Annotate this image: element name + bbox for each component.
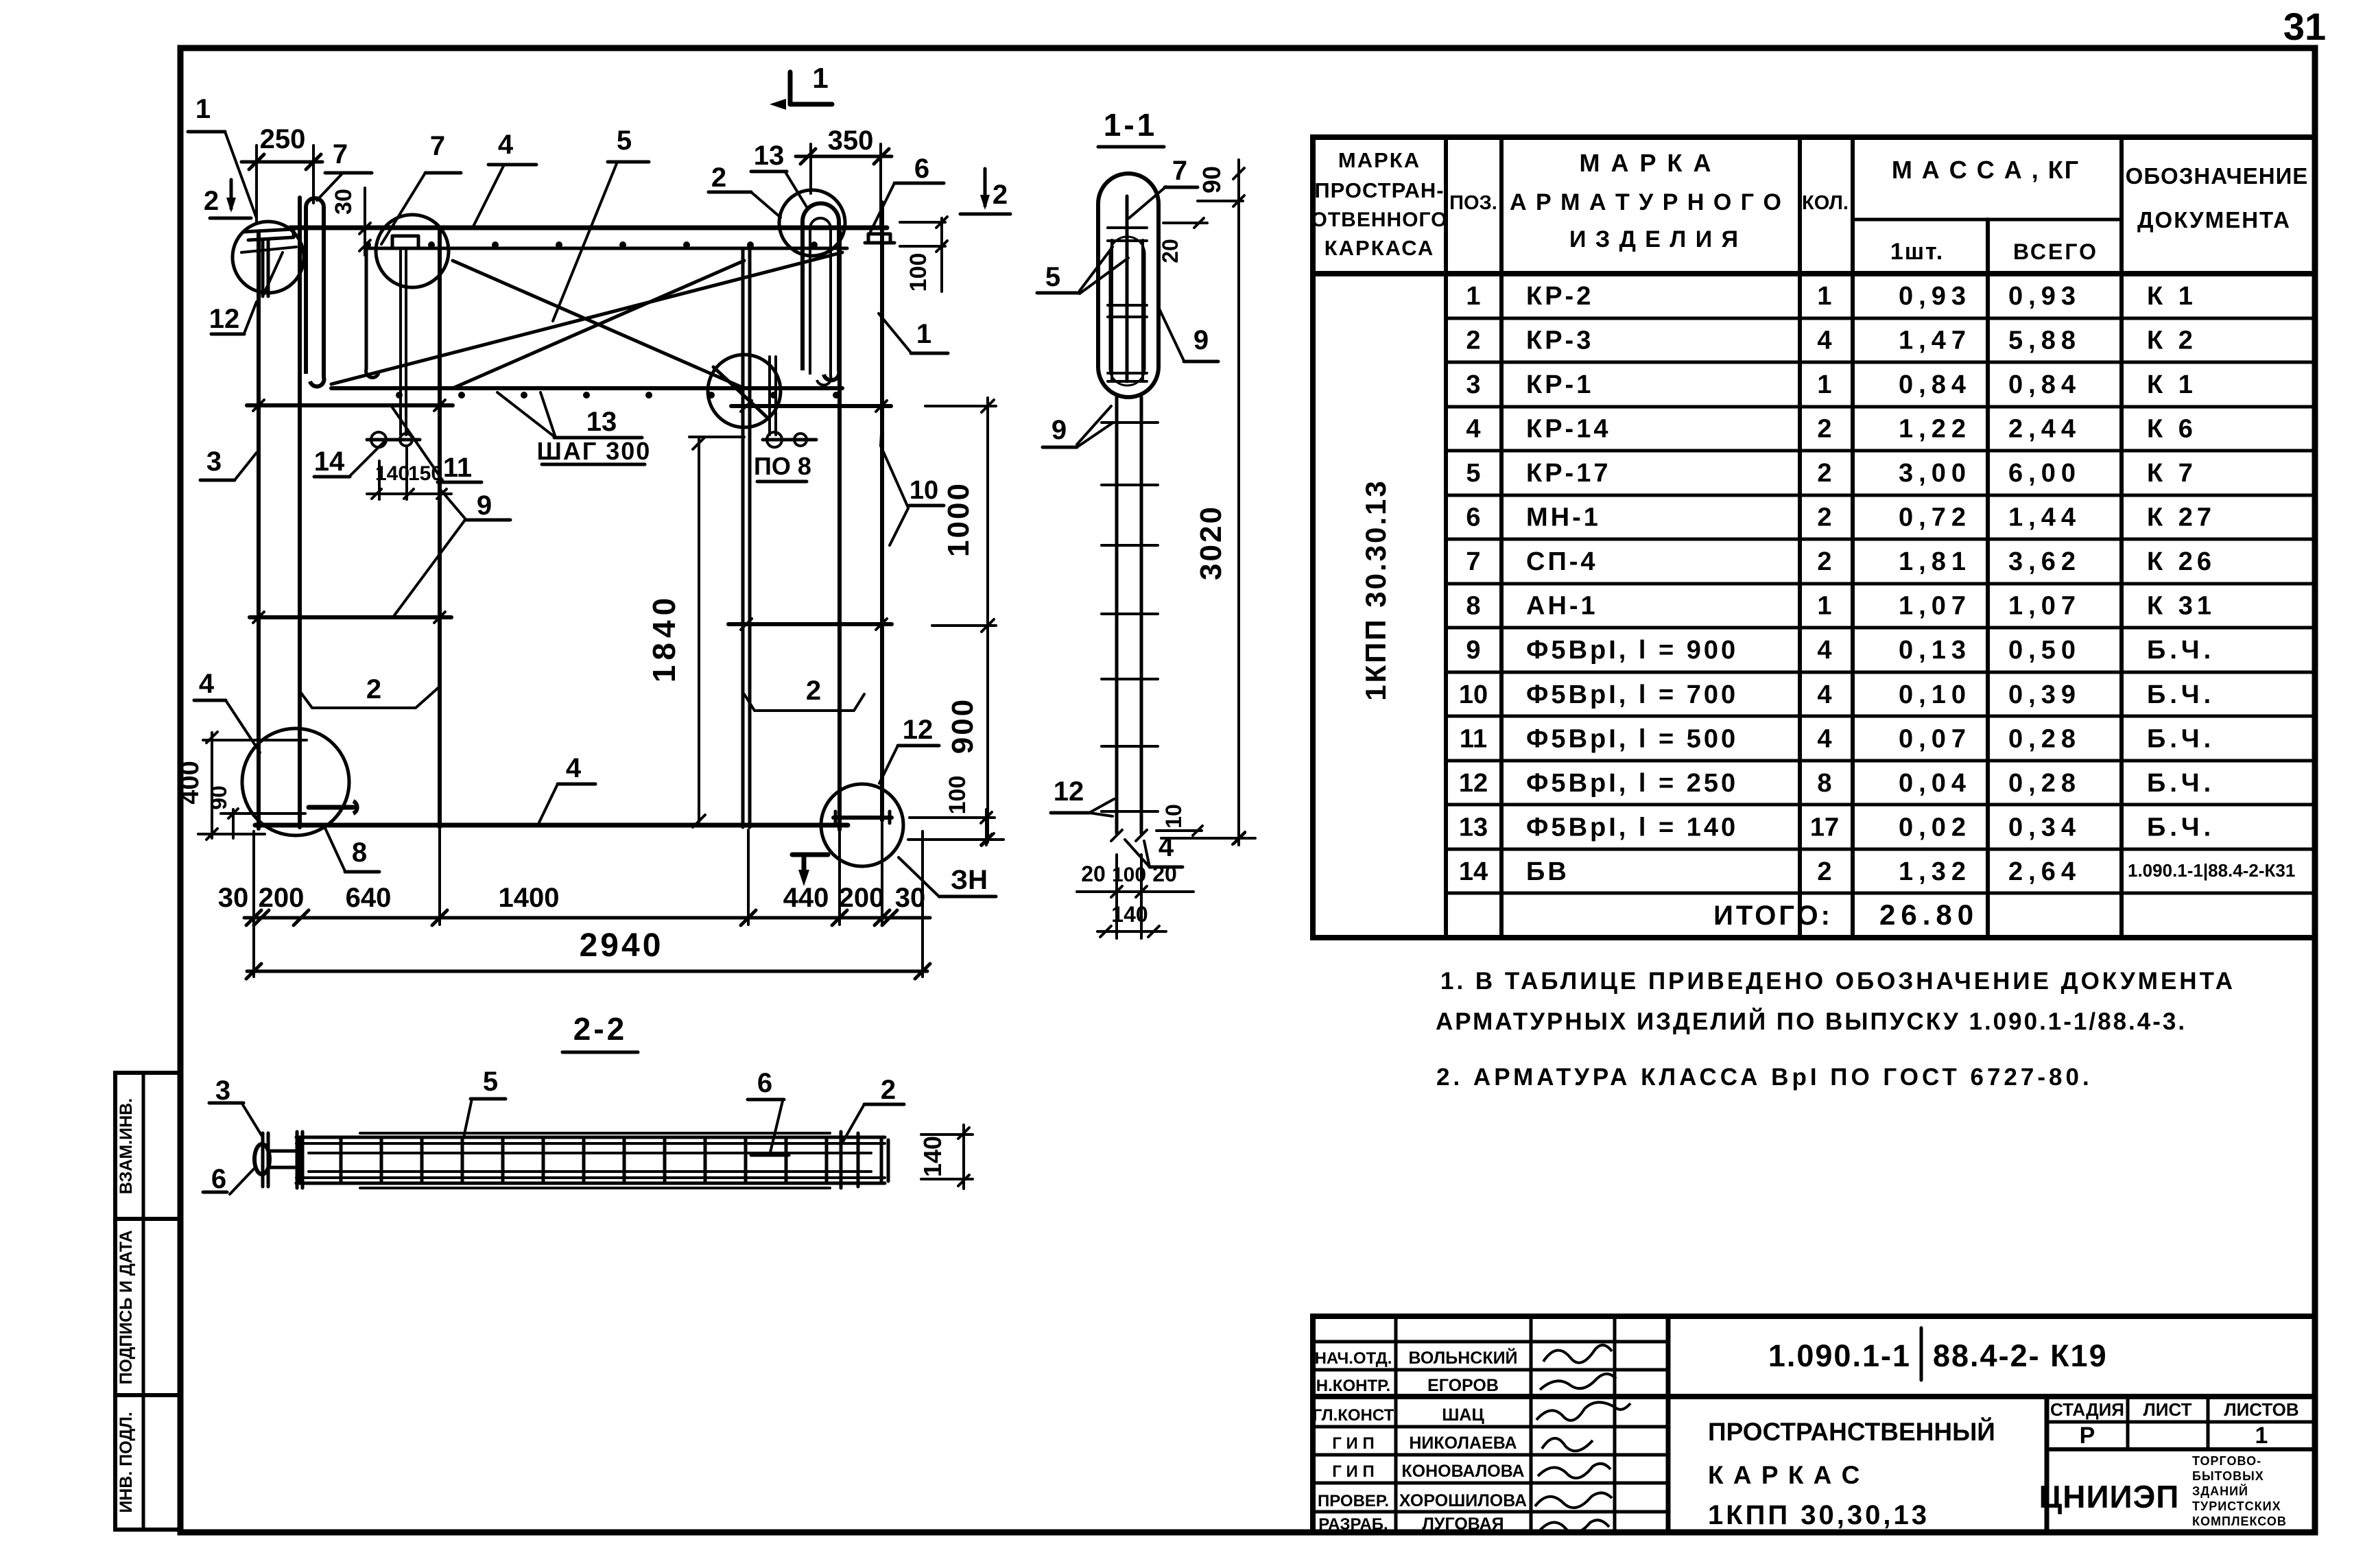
svg-text:ОТВЕННОГО: ОТВЕННОГО xyxy=(1311,209,1448,231)
svg-text:0,04: 0,04 xyxy=(1899,769,1971,798)
svg-text:ЗДАНИЙ: ЗДАНИЙ xyxy=(2192,1484,2248,1498)
plan diagonal brace 3 xyxy=(331,252,842,384)
plan cross wire rung row 1 left xyxy=(247,403,453,407)
svg-text:2: 2 xyxy=(204,186,219,216)
plan vertical member mid-left xyxy=(438,228,442,827)
dimension 1840 vertical xyxy=(698,439,700,825)
svg-text:КОЛ.: КОЛ. xyxy=(1802,192,1849,214)
svg-text:6: 6 xyxy=(211,1164,226,1194)
svg-text:20: 20 xyxy=(1081,862,1106,886)
svg-text:150: 150 xyxy=(408,462,442,485)
svg-text:К 26: К 26 xyxy=(2147,547,2215,576)
svg-text:0,84: 0,84 xyxy=(1899,370,1971,399)
svg-text:ШАГ 300: ШАГ 300 xyxy=(537,437,652,465)
svg-text:МАРКА: МАРКА xyxy=(1338,148,1421,172)
svg-text:2: 2 xyxy=(1817,503,1831,532)
plan left vertical member pair xyxy=(298,198,302,827)
svg-text:Г И П: Г И П xyxy=(1332,1434,1374,1453)
svg-text:3: 3 xyxy=(1466,370,1480,399)
table column line 1 xyxy=(1444,137,1448,938)
svg-text:ОБОЗНАЧЕНИЕ: ОБОЗНАЧЕНИЕ xyxy=(2126,163,2309,189)
svg-text:640: 640 xyxy=(346,883,392,913)
svg-text:1КПП 30.30.13: 1КПП 30.30.13 xyxy=(1359,479,1392,701)
svg-text:ВЗАМ.ИНВ.: ВЗАМ.ИНВ. xyxy=(117,1098,136,1194)
svg-text:26.80: 26.80 xyxy=(1879,899,1979,931)
svg-text:900: 900 xyxy=(946,698,979,754)
svg-text:ЛУГОВАЯ: ЛУГОВАЯ xyxy=(1422,1514,1504,1534)
svg-text:2-2: 2-2 xyxy=(573,1011,627,1047)
svg-text:0,13: 0,13 xyxy=(1899,636,1971,665)
svg-text:1КПП 30,30,13: 1КПП 30,30,13 xyxy=(1708,1500,1929,1530)
svg-text:9: 9 xyxy=(1193,325,1209,355)
svg-text:ЗН: ЗН xyxy=(951,865,988,895)
svg-text:1: 1 xyxy=(1466,282,1480,311)
plan diagonal brace 2 xyxy=(453,261,744,388)
svg-text:ВСЕГО: ВСЕГО xyxy=(2013,239,2098,264)
svg-text:350: 350 xyxy=(828,126,874,156)
svg-text:БВ: БВ xyxy=(1526,857,1569,886)
svg-text:1,81: 1,81 xyxy=(1899,547,1971,576)
svg-text:10: 10 xyxy=(1161,804,1186,829)
svg-text:6: 6 xyxy=(757,1068,772,1098)
svg-text:2: 2 xyxy=(881,1075,896,1105)
item 12 end bar in circle xyxy=(833,816,892,820)
left stamp strip divider 2 xyxy=(115,1393,180,1397)
plan bottom left hook item 8 xyxy=(309,805,353,810)
svg-text:11: 11 xyxy=(443,453,472,483)
svg-text:1.090.1-1: 1.090.1-1 xyxy=(1768,1338,1911,1373)
plan bottom beam chord xyxy=(331,386,842,390)
svg-text:ЦНИИЭП: ЦНИИЭП xyxy=(2039,1479,2180,1514)
table massa sub-header line xyxy=(1853,218,2122,222)
svg-text:К 1: К 1 xyxy=(2147,282,2197,311)
svg-text:12: 12 xyxy=(209,304,240,334)
svg-text:100: 100 xyxy=(1112,864,1146,886)
svg-text:10: 10 xyxy=(910,476,938,505)
svg-text:КР-14: КР-14 xyxy=(1526,415,1611,444)
plan bottom chord item 4 xyxy=(255,823,848,828)
signature squiggles xyxy=(1543,1345,1612,1363)
table row lines xyxy=(1446,317,2315,320)
svg-text:3,62: 3,62 xyxy=(2008,547,2081,576)
svg-text:200: 200 xyxy=(259,883,305,913)
detail circle top-left inner plate xyxy=(244,229,294,240)
svg-text:6: 6 xyxy=(914,154,929,184)
section 1-1 inner capsule xyxy=(1110,237,1145,385)
plan pin B hanger wires xyxy=(399,248,402,435)
svg-text:ВОЛЬНСКИЙ: ВОЛЬНСКИЙ xyxy=(1408,1347,1517,1368)
svg-text:И З Д Е Л И Я: И З Д Е Л И Я xyxy=(1569,226,1739,252)
svg-text:ПРОСТРАН-: ПРОСТРАН- xyxy=(1314,178,1444,202)
svg-text:0,84: 0,84 xyxy=(2008,370,2081,399)
svg-text:20: 20 xyxy=(1152,862,1177,886)
svg-text:5: 5 xyxy=(1045,262,1060,292)
bottom dimension extension lines xyxy=(252,831,255,977)
bottom dimension row 30 200 640 1400 440 200 30 xyxy=(244,916,930,920)
detail circle top-left xyxy=(233,222,304,293)
svg-text:30: 30 xyxy=(895,883,926,913)
plan vertical member mid-right pair xyxy=(741,248,745,827)
svg-text:2,44: 2,44 xyxy=(2008,415,2081,444)
svg-text:ИТОГО:: ИТОГО: xyxy=(1713,901,1833,931)
svg-text:2940: 2940 xyxy=(580,927,664,964)
v mark wires 13 xyxy=(497,392,556,438)
svg-text:200: 200 xyxy=(839,883,885,913)
svg-text:1: 1 xyxy=(1817,370,1831,399)
svg-text:ПРОСТРАНСТВЕННЫЙ: ПРОСТРАНСТВЕННЫЙ xyxy=(1708,1417,1995,1446)
plan vertical member right 2 xyxy=(880,202,884,820)
svg-text:31: 31 xyxy=(2283,5,2326,48)
section 1-1 inner wires xyxy=(1110,240,1113,381)
svg-text:4: 4 xyxy=(1817,326,1831,355)
svg-text:0,28: 0,28 xyxy=(2008,769,2081,798)
svg-text:9: 9 xyxy=(1052,415,1067,445)
section 2-2 rungs xyxy=(299,1139,302,1182)
plan hairpin pin B plate xyxy=(392,236,418,248)
detail circle mid-right xyxy=(708,355,781,427)
svg-text:Ф5ВрI, l = 500: Ф5ВрI, l = 500 xyxy=(1526,724,1738,753)
section 1-1 stem rungs xyxy=(1102,421,1158,424)
svg-text:Б.Ч.: Б.Ч. xyxy=(2147,724,2215,753)
svg-text:Н.КОНТР.: Н.КОНТР. xyxy=(1316,1377,1390,1395)
svg-text:3,00: 3,00 xyxy=(1899,459,1971,488)
svg-text:АРМАТУРНЫХ ИЗДЕЛИЙ ПО ВЫПУСК: АРМАТУРНЫХ ИЗДЕЛИЙ ПО ВЫПУСКУ 1.090.1-1/… xyxy=(1436,1008,2187,1035)
svg-text:4: 4 xyxy=(1466,415,1480,444)
svg-text:ЛИСТОВ: ЛИСТОВ xyxy=(2224,1399,2298,1420)
svg-text:КР-3: КР-3 xyxy=(1526,326,1593,355)
svg-text:Ф5ВрI, l = 250: Ф5ВрI, l = 250 xyxy=(1526,769,1738,798)
svg-text:ЕГОРОВ: ЕГОРОВ xyxy=(1427,1376,1499,1395)
dimension 2940 xyxy=(247,970,927,973)
detail circle bottom-right xyxy=(821,784,903,866)
svg-text:СТАДИЯ: СТАДИЯ xyxy=(2050,1399,2124,1420)
svg-text:7: 7 xyxy=(430,131,445,161)
dimension 1000 900 right xyxy=(986,398,989,842)
title block column line role xyxy=(1394,1316,1398,1532)
svg-text:3: 3 xyxy=(215,1076,230,1106)
title block column line sign xyxy=(1613,1316,1617,1532)
svg-text:8: 8 xyxy=(1466,592,1480,621)
plan cross wire rung row 2 left xyxy=(250,615,451,619)
svg-text:К 27: К 27 xyxy=(2147,503,2215,532)
svg-text:1,32: 1,32 xyxy=(1899,857,1971,886)
svg-text:МН-1: МН-1 xyxy=(1526,503,1601,532)
svg-text:7: 7 xyxy=(333,139,348,169)
detail circle mid-left xyxy=(376,215,449,287)
title block outer frame xyxy=(1313,1316,2315,1532)
section 2-2 bottom wire xyxy=(360,1187,830,1189)
title block stadia list listov header lines xyxy=(2045,1397,2050,1532)
title block column line mid xyxy=(1666,1316,1671,1532)
svg-text:1: 1 xyxy=(812,62,828,94)
svg-text:2: 2 xyxy=(1817,857,1831,886)
svg-text:2: 2 xyxy=(806,676,821,706)
svg-text:Ф5ВрI, l = 700: Ф5ВрI, l = 700 xyxy=(1526,680,1738,709)
svg-text:2,64: 2,64 xyxy=(2008,857,2081,886)
svg-text:2. АРМАТУРА КЛАССА ВрI ПО Г: 2. АРМАТУРА КЛАССА ВрI ПО ГОСТ 6727-80. xyxy=(1436,1064,2093,1091)
left stamp strip inner divider xyxy=(142,1073,145,1530)
svg-text:1шт.: 1шт. xyxy=(1890,239,1944,265)
svg-text:ЛИСТ: ЛИСТ xyxy=(2143,1399,2192,1420)
svg-text:250: 250 xyxy=(260,124,306,154)
svg-text:1: 1 xyxy=(916,319,931,349)
svg-text:КОМПЛЕКСОВ: КОМПЛЕКСОВ xyxy=(2192,1514,2287,1528)
svg-text:НАЧ.ОТД.: НАЧ.ОТД. xyxy=(1315,1349,1392,1368)
svg-text:7: 7 xyxy=(1466,547,1480,576)
svg-text:ТУРИСТСКИХ: ТУРИСТСКИХ xyxy=(2192,1499,2281,1513)
svg-text:1000: 1000 xyxy=(942,482,975,557)
svg-text:ПОДПИСЬ И ДАТА: ПОДПИСЬ И ДАТА xyxy=(117,1230,136,1384)
table column line 6 xyxy=(2119,137,2124,938)
svg-text:1: 1 xyxy=(2255,1423,2268,1449)
svg-text:0,02: 0,02 xyxy=(1899,813,1971,842)
svg-text:БЫТОВЫХ: БЫТОВЫХ xyxy=(2192,1469,2264,1483)
svg-text:К 2: К 2 xyxy=(2147,326,2197,355)
section 2-2 body inner lines xyxy=(309,1152,871,1154)
svg-text:ПОЗ.: ПОЗ. xyxy=(1449,192,1497,214)
svg-text:1840: 1840 xyxy=(646,593,682,682)
svg-text:2: 2 xyxy=(711,163,726,193)
svg-text:КР-1: КР-1 xyxy=(1526,370,1593,399)
svg-text:2: 2 xyxy=(1817,415,1831,444)
plan wire at 534 xyxy=(366,248,379,377)
svg-text:1: 1 xyxy=(1817,592,1831,621)
svg-text:0,28: 0,28 xyxy=(2008,724,2081,753)
svg-text:400: 400 xyxy=(176,761,204,804)
table column line 5 xyxy=(1986,219,1990,938)
svg-text:2: 2 xyxy=(1817,547,1831,576)
plan right nested hairpin outer xyxy=(803,204,839,381)
svg-text:К 1: К 1 xyxy=(2147,370,2197,399)
svg-text:6: 6 xyxy=(1466,503,1480,532)
plan right nested hairpin inner xyxy=(810,218,831,385)
svg-text:2: 2 xyxy=(366,674,381,704)
svg-text:К 7: К 7 xyxy=(2147,459,2197,488)
svg-text:К 31: К 31 xyxy=(2147,592,2215,621)
svg-text:М А Р К А: М А Р К А xyxy=(1580,149,1713,177)
svg-text:6,00: 6,00 xyxy=(2008,459,2081,488)
plan diagonal brace 1 xyxy=(453,261,744,388)
svg-text:0,93: 0,93 xyxy=(2008,282,2081,311)
plan bottom chord wire dots xyxy=(396,392,403,399)
section 1-1 stem wires xyxy=(1115,397,1119,833)
svg-text:КАРКАСА: КАРКАСА xyxy=(1324,236,1435,260)
svg-text:4: 4 xyxy=(1817,724,1831,753)
svg-text:8: 8 xyxy=(352,838,367,868)
svg-text:7: 7 xyxy=(1172,156,1187,186)
svg-text:Р: Р xyxy=(2080,1423,2095,1449)
section 2-2 body top xyxy=(296,1136,885,1139)
table column line 2 xyxy=(1499,137,1504,938)
svg-text:5,88: 5,88 xyxy=(2008,326,2081,355)
svg-text:4: 4 xyxy=(199,669,215,699)
section 2-2 top wire xyxy=(360,1132,830,1135)
svg-text:1. В ТАБЛИЦЕ ПРИВЕДЕНО ОБОЗН: 1. В ТАБЛИЦЕ ПРИВЕДЕНО ОБОЗНАЧЕНИЕ ДОКУМ… xyxy=(1440,968,2235,995)
svg-text:2: 2 xyxy=(1466,326,1480,355)
svg-text:Г И П: Г И П xyxy=(1332,1462,1374,1481)
section 1-1 bottom ticks xyxy=(1111,830,1122,841)
svg-text:4: 4 xyxy=(566,753,582,783)
svg-text:12: 12 xyxy=(1459,769,1488,798)
svg-text:0,93: 0,93 xyxy=(1899,282,1971,311)
svg-text:2: 2 xyxy=(1817,459,1831,488)
svg-text:13: 13 xyxy=(1459,813,1488,842)
svg-text:3020: 3020 xyxy=(1194,505,1228,580)
svg-text:88.4-2- К19: 88.4-2- К19 xyxy=(1933,1338,2108,1373)
svg-text:1400: 1400 xyxy=(499,883,560,913)
section 1-1 dimension 3020 xyxy=(1237,160,1240,845)
svg-text:12: 12 xyxy=(1054,776,1084,807)
svg-text:4: 4 xyxy=(1817,636,1831,665)
svg-text:100: 100 xyxy=(945,776,971,815)
svg-text:140: 140 xyxy=(1111,902,1148,927)
svg-text:1: 1 xyxy=(1817,282,1831,311)
svg-text:0,72: 0,72 xyxy=(1899,503,1971,532)
svg-text:14: 14 xyxy=(314,447,345,477)
svg-text:К А Р К А С: К А Р К А С xyxy=(1708,1461,1861,1489)
svg-text:Ф5ВрI, l = 140: Ф5ВрI, l = 140 xyxy=(1526,813,1738,842)
svg-text:Б.Ч.: Б.Ч. xyxy=(2147,636,2215,665)
svg-text:17: 17 xyxy=(1810,813,1839,842)
svg-text:0,50: 0,50 xyxy=(2008,636,2081,665)
section 1-1 bottom dimension 140 xyxy=(1097,930,1166,933)
section mark 1 bottom xyxy=(792,853,828,857)
left stamp strip outer box xyxy=(115,1073,180,1530)
svg-text:90: 90 xyxy=(206,785,231,810)
svg-text:5: 5 xyxy=(617,126,632,156)
svg-text:ИНВ. ПОДЛ.: ИНВ. ПОДЛ. xyxy=(117,1412,136,1512)
svg-text:ГЛ.КОНСТ: ГЛ.КОНСТ xyxy=(1313,1406,1394,1425)
svg-text:КОНОВАЛОВА: КОНОВАЛОВА xyxy=(1401,1462,1524,1481)
section 1-1 outer capsule xyxy=(1098,174,1159,397)
svg-text:13: 13 xyxy=(754,141,785,171)
svg-text:4: 4 xyxy=(1817,680,1831,709)
svg-text:Ф5ВрI, l = 900: Ф5ВрI, l = 900 xyxy=(1526,636,1738,665)
svg-text:2: 2 xyxy=(993,180,1008,210)
svg-text:140: 140 xyxy=(918,1136,947,1177)
svg-text:ПРОВЕР.: ПРОВЕР. xyxy=(1318,1492,1389,1510)
svg-text:4: 4 xyxy=(498,130,514,160)
plan second chord with wire dots xyxy=(366,247,847,250)
section 2-2 body bottom xyxy=(296,1176,885,1179)
svg-text:ХОРОШИЛОВА: ХОРОШИЛОВА xyxy=(1399,1491,1527,1510)
svg-text:440: 440 xyxy=(783,883,829,913)
svg-text:ПО 8: ПО 8 xyxy=(754,452,811,480)
title block thick mid line xyxy=(1313,1394,2315,1399)
svg-text:0,39: 0,39 xyxy=(2008,680,2081,709)
svg-text:14: 14 xyxy=(1459,857,1488,886)
svg-text:100: 100 xyxy=(905,253,931,292)
svg-text:1,44: 1,44 xyxy=(2008,503,2081,532)
svg-text:13: 13 xyxy=(586,407,617,437)
detail circle bottom-left xyxy=(242,728,349,835)
svg-text:1,07: 1,07 xyxy=(1899,592,1971,621)
svg-text:1,47: 1,47 xyxy=(1899,326,1971,355)
svg-text:НИКОЛАЕВА: НИКОЛАЕВА xyxy=(1409,1434,1517,1453)
plan cross wire rung row 1 right xyxy=(731,404,891,408)
svg-text:1.090.1-1|88.4-2-К31: 1.090.1-1|88.4-2-К31 xyxy=(2128,860,2295,881)
svg-text:10: 10 xyxy=(1459,680,1488,709)
svg-text:0,07: 0,07 xyxy=(1899,724,1971,753)
plan cross wire rung row 2 right xyxy=(728,622,892,626)
svg-text:12: 12 xyxy=(903,715,934,745)
section 1-1 bottom dimension 20 100 20 xyxy=(1077,890,1193,893)
svg-text:Б.Ч.: Б.Ч. xyxy=(2147,680,2215,709)
svg-text:0,34: 0,34 xyxy=(2008,813,2081,842)
svg-text:1: 1 xyxy=(195,94,211,124)
svg-text:ТОРГОВО-: ТОРГОВО- xyxy=(2192,1454,2261,1468)
svg-text:4: 4 xyxy=(1159,832,1174,862)
svg-text:9: 9 xyxy=(477,490,492,521)
svg-text:1,07: 1,07 xyxy=(2008,592,2081,621)
title block column line name xyxy=(1530,1316,1533,1532)
plan right end plate item 6 xyxy=(868,234,890,243)
svg-text:КР-17: КР-17 xyxy=(1526,459,1611,488)
svg-text:КР-2: КР-2 xyxy=(1526,282,1593,311)
svg-text:1-1: 1-1 xyxy=(1104,107,1157,143)
svg-text:0,10: 0,10 xyxy=(1899,680,1971,709)
plan hairpin pin A xyxy=(306,198,324,386)
svg-text:1,22: 1,22 xyxy=(1899,415,1971,444)
svg-text:АН-1: АН-1 xyxy=(1526,592,1598,621)
svg-text:30: 30 xyxy=(218,883,249,913)
svg-text:8: 8 xyxy=(1817,769,1831,798)
table column line 3 xyxy=(1798,137,1802,938)
left stamp strip divider 1 xyxy=(115,1217,180,1221)
svg-text:5: 5 xyxy=(483,1067,498,1097)
section 2-2 left eye xyxy=(254,1144,270,1174)
section 1-1 inner rungs xyxy=(1108,226,1147,229)
svg-text:11: 11 xyxy=(1460,724,1487,753)
plan left vertical member 3 xyxy=(257,233,261,829)
svg-text:Б.Ч.: Б.Ч. xyxy=(2147,813,2215,842)
svg-text:9: 9 xyxy=(1466,636,1480,665)
section 2-2 left end bars xyxy=(261,1133,265,1187)
plan top chord item 4 xyxy=(290,226,887,230)
table column line 4 xyxy=(1851,137,1855,938)
table header bottom line xyxy=(1313,271,2315,276)
svg-text:ДОКУМЕНТА: ДОКУМЕНТА xyxy=(2137,207,2291,233)
svg-text:20: 20 xyxy=(1158,239,1183,263)
svg-text:5: 5 xyxy=(1466,459,1480,488)
svg-text:А Р М А Т У Р Н О Г О: А Р М А Т У Р Н О Г О xyxy=(1510,189,1783,215)
plan hanger 14 hook xyxy=(371,432,386,447)
svg-text:М А С С А , КГ: М А С С А , КГ xyxy=(1892,156,2080,184)
plan vertical member right 1 xyxy=(837,228,842,830)
section 1-1 center wire xyxy=(1126,196,1129,381)
title block row lines left part xyxy=(1313,1340,1668,1344)
section 2-2 right end bars xyxy=(840,1132,843,1188)
plan right hanger po 8 hook xyxy=(767,432,782,447)
svg-text:СП-4: СП-4 xyxy=(1526,547,1598,576)
svg-text:К 6: К 6 xyxy=(2147,415,2197,444)
detail circle top-right xyxy=(779,190,845,256)
svg-text:3: 3 xyxy=(206,447,222,477)
parts table outer frame xyxy=(1313,137,2315,938)
svg-text:90: 90 xyxy=(1198,166,1226,193)
plan right hanger wires xyxy=(768,357,771,435)
svg-text:Б.Ч.: Б.Ч. xyxy=(2147,769,2215,798)
svg-text:РАЗРАБ.: РАЗРАБ. xyxy=(1318,1515,1388,1534)
svg-text:ШАЦ: ШАЦ xyxy=(1442,1405,1484,1425)
svg-text:30: 30 xyxy=(331,189,357,215)
